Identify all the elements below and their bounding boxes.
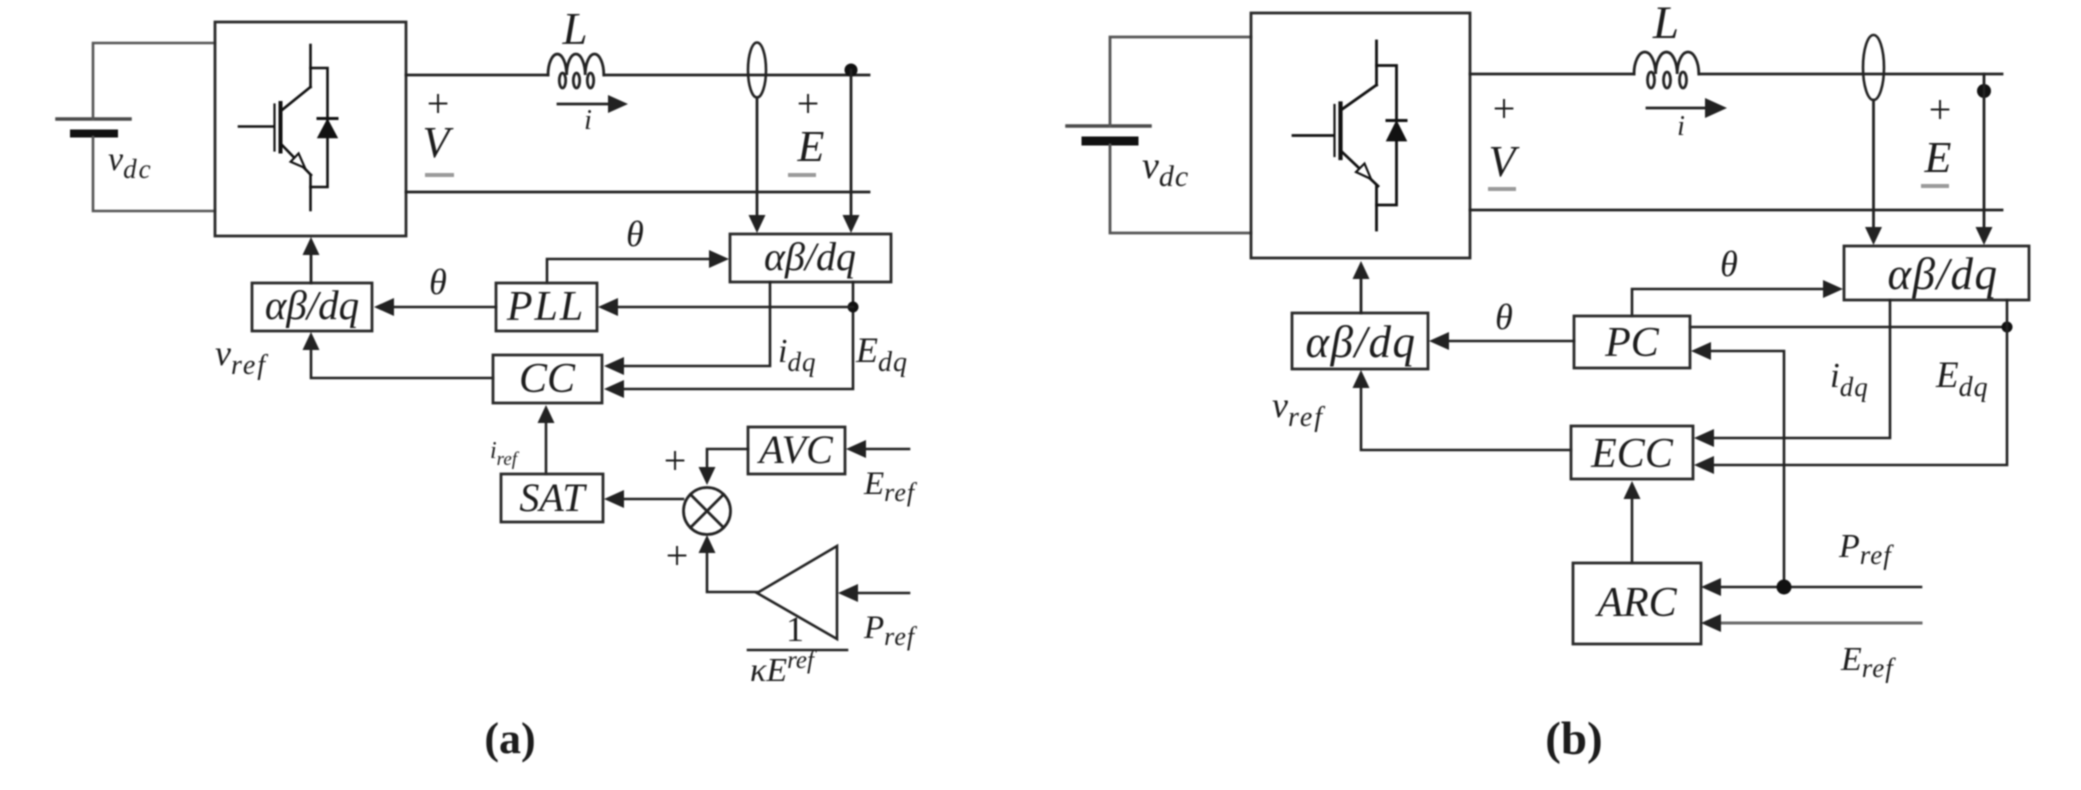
svg-text:Edq: Edq — [1935, 355, 1989, 403]
summing junction (a) — [684, 488, 731, 535]
wire battery top (a) — [93, 43, 215, 119]
wire theta to abdq (b) — [1632, 280, 1843, 316]
wire battery top (b) — [1110, 37, 1251, 126]
wire E sense down (b) — [1865, 100, 1882, 245]
wire E sense down (a) — [749, 98, 766, 234]
wire PC to Edq line (b) — [1690, 326, 2007, 329]
junction dot Edq-PLL (a) — [848, 302, 859, 313]
wire Edq (b) — [1694, 300, 2007, 474]
wire AVC to sum (a) — [699, 449, 749, 485]
current arrow i (a) — [558, 95, 628, 136]
battery Vdc (a) — [57, 119, 130, 134]
label +V- (b) — [1489, 86, 1521, 186]
wire sum to SAT (a) — [604, 490, 683, 508]
svg-text:κEref: κEref — [750, 647, 817, 689]
svg-text:AVC: AVC — [756, 427, 834, 472]
svg-text:ARC: ARC — [1594, 580, 1677, 626]
svg-text:αβ/dq: αβ/dq — [265, 282, 359, 328]
diode D1 (a) — [311, 68, 338, 187]
label gain 1/kEref (a) — [750, 609, 817, 689]
svg-text:(a): (a) — [484, 714, 535, 763]
battery Vdc (b) — [1067, 126, 1150, 141]
svg-text:L: L — [1652, 0, 1679, 49]
wire vref (a) — [303, 332, 494, 378]
svg-text:αβ/dq: αβ/dq — [764, 234, 856, 279]
svg-text:PLL: PLL — [506, 284, 585, 330]
transistor Q1 IGBT (a) — [239, 45, 311, 210]
wire Edq (a) — [604, 282, 853, 398]
wire Pref riser to PC (b) — [1691, 342, 1784, 587]
svg-text:θ: θ — [429, 262, 447, 302]
wire Eref (b) — [1701, 614, 1921, 632]
label +V- (a) — [423, 81, 455, 167]
wire idq (a) — [604, 282, 770, 375]
alpha-beta/dq box right (a) — [730, 234, 891, 282]
svg-text:+: + — [797, 81, 820, 126]
wire Pref to gain (a) — [838, 584, 909, 602]
inductor L (b) — [1634, 52, 1699, 88]
svg-text:θ: θ — [626, 214, 644, 254]
transistor Q1 IGBT (b) — [1293, 41, 1378, 230]
wire PC theta out (b) — [1429, 332, 1574, 350]
svg-text:(b): (b) — [1545, 713, 1602, 765]
op block ECC (b) — [1571, 426, 1693, 479]
svg-text:i: i — [1677, 111, 1685, 142]
svg-text:vdc: vdc — [1142, 145, 1189, 193]
op block CC (a) — [493, 355, 602, 403]
label +E- (a) — [797, 81, 825, 171]
wire vref (b) — [1353, 370, 1572, 450]
minus V (b) — [1490, 187, 1514, 191]
fraction bar (a) — [748, 649, 847, 652]
svg-text:+: + — [666, 533, 689, 578]
wire idq (b) — [1694, 300, 1890, 447]
wire theta to abdq (a) — [547, 250, 729, 283]
inductor L (a) — [548, 54, 604, 88]
svg-text:ECC: ECC — [1590, 431, 1674, 477]
svg-text:vdc: vdc — [108, 141, 153, 184]
wire AC bottom (b) — [1470, 209, 2002, 212]
wire battery bottom (a) — [93, 137, 215, 211]
op block ARC (b) — [1573, 563, 1701, 644]
alpha-beta/dq box right (b) — [1844, 246, 2029, 300]
minus V (a) — [427, 173, 452, 177]
svg-text:vref: vref — [1272, 385, 1325, 433]
wire AC top (b) — [1470, 73, 2002, 76]
alpha-beta/dq box left (b) — [1292, 313, 1428, 369]
converter box (a) — [215, 22, 406, 236]
gain block triangle (a) — [757, 546, 837, 639]
svg-text:αβ/dq: αβ/dq — [1305, 317, 1416, 367]
CT ellipse (a) — [748, 43, 766, 98]
wire gate drive arrow (a) — [303, 237, 320, 283]
node dot (b) — [1977, 84, 1991, 98]
wire battery bottom (b) — [1110, 145, 1251, 233]
svg-text:E: E — [797, 122, 825, 171]
svg-text:+: + — [1929, 87, 1952, 132]
svg-text:idq: idq — [1830, 356, 1869, 402]
svg-text:Eref: Eref — [1840, 641, 1896, 683]
CT ellipse (b) — [1863, 35, 1884, 100]
svg-text:i: i — [584, 105, 592, 136]
svg-text:Edq: Edq — [855, 330, 908, 378]
svg-text:+: + — [664, 438, 687, 483]
wire Eref to AVC (a) — [846, 440, 909, 458]
svg-text:1: 1 — [786, 609, 804, 649]
wire E down (a) — [843, 70, 860, 233]
minus E (a) — [790, 173, 814, 177]
svg-text:iref: iref — [490, 438, 520, 470]
wire AC bottom (a) — [406, 191, 869, 194]
wire ARC to ECC (b) — [1624, 481, 1641, 563]
wire gain to sum (a) — [699, 535, 758, 592]
svg-text:+: + — [1493, 86, 1516, 131]
current arrow i (b) — [1647, 98, 1727, 142]
diode D1 (b) — [1377, 66, 1407, 206]
wire iref (a) — [538, 405, 555, 474]
op block PC (b) — [1574, 316, 1690, 368]
wire gate drive arrow (b) — [1353, 261, 1370, 313]
wire AC top (a) — [406, 74, 869, 77]
op block AVC (a) — [748, 427, 845, 474]
minus E (b) — [1923, 184, 1947, 188]
svg-text:PC: PC — [1604, 320, 1660, 366]
svg-text:θ: θ — [1495, 297, 1513, 337]
svg-text:idq: idq — [778, 333, 816, 377]
op block PLL (a) — [496, 283, 597, 331]
junction dot Pref (b) — [1777, 580, 1792, 595]
converter box (b) — [1251, 13, 1470, 258]
node dot (a) — [845, 64, 858, 77]
wire PLL theta out (a) — [374, 298, 496, 316]
svg-text:Pref: Pref — [1838, 528, 1894, 570]
svg-text:CC: CC — [519, 356, 576, 402]
svg-text:SAT: SAT — [519, 475, 587, 520]
wire E down (b) — [1976, 74, 1993, 245]
svg-text:Pref: Pref — [863, 610, 918, 651]
svg-text:αβ/dq: αβ/dq — [1887, 249, 1998, 299]
label +E- (b) — [1924, 87, 1952, 182]
svg-text:V: V — [423, 118, 455, 167]
wire Edq to PLL (a) — [598, 298, 853, 316]
svg-text:vref: vref — [215, 333, 268, 381]
wire Pref (b) — [1701, 578, 1921, 596]
svg-text:Eref: Eref — [863, 466, 918, 507]
op block SAT (a) — [501, 474, 603, 522]
junction dot PC-Edq (b) — [2002, 322, 2013, 333]
svg-text:θ: θ — [1720, 244, 1738, 284]
svg-text:V: V — [1489, 137, 1521, 186]
svg-text:E: E — [1924, 133, 1952, 182]
alpha-beta/dq box left (a) — [252, 282, 372, 331]
svg-text:L: L — [561, 4, 587, 54]
